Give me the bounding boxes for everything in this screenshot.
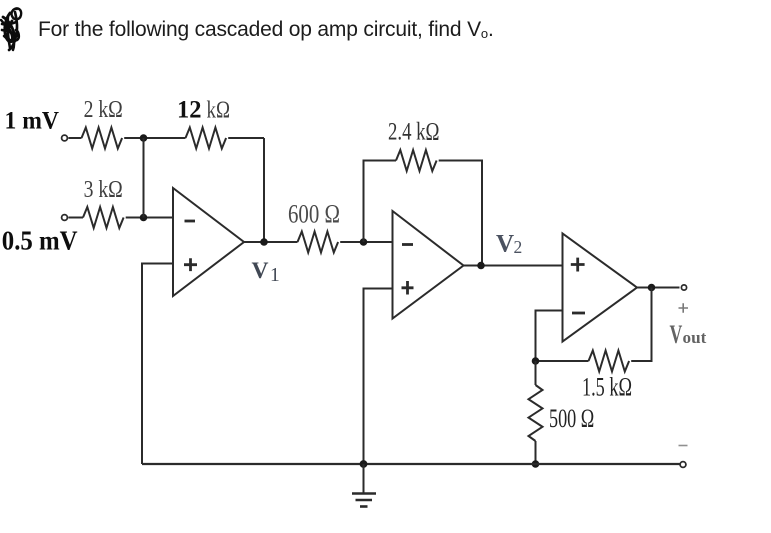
svg-text:V: V — [496, 231, 514, 258]
svg-text:0.5 mV: 0.5 mV — [2, 226, 78, 256]
resistor R 600 — [298, 232, 339, 253]
svg-text:3 kΩ: 3 kΩ — [84, 177, 123, 203]
wire R 2.4k down to op2 output — [439, 161, 482, 266]
node B junction dot — [140, 214, 148, 222]
svg-text:2: 2 — [514, 237, 523, 257]
op-amp U3 — [563, 234, 638, 342]
svg-text:1 mV: 1 mV — [5, 105, 60, 134]
wire R 12k to corner — [228, 137, 264, 139]
resistor R 2.4k — [396, 150, 437, 171]
op-amp U2 — [393, 211, 464, 319]
svg-text:2 kΩ: 2 kΩ — [84, 97, 123, 123]
svg-text:V: V — [670, 320, 683, 349]
node E junction dot — [532, 357, 540, 365]
wire R 1.5k to node E — [536, 360, 589, 362]
wire terminal to R 2k — [68, 137, 81, 139]
svg-text:1.5 kΩ: 1.5 kΩ — [582, 373, 632, 402]
svg-text:600 Ω: 600 Ω — [288, 199, 340, 228]
node V1 junction dot — [260, 238, 268, 246]
wire op1 noninverting input — [142, 264, 173, 465]
wire R 3k to op1 inverting input — [126, 217, 173, 219]
wire node E to R 500 — [535, 361, 537, 385]
resistor R 3k — [83, 207, 124, 228]
wire op3 inverting input — [536, 311, 563, 362]
scribble mark — [1, 8, 21, 50]
resistor R 1.5k — [589, 351, 630, 372]
wire feedback loop up from node C — [364, 161, 397, 243]
plus sign Vout — [679, 303, 689, 312]
terminal 0.5mV input — [62, 215, 68, 221]
wire op3 output — [637, 287, 680, 289]
svg-text:2.4 kΩ: 2.4 kΩ — [388, 119, 440, 146]
node G junction dot — [360, 460, 368, 468]
svg-text:12: 12 — [177, 97, 202, 124]
resistor R 12k — [186, 128, 227, 149]
svg-text:V: V — [252, 258, 269, 284]
wire R 600 to op2 inverting input — [340, 241, 392, 243]
node C junction dot — [360, 238, 368, 246]
wire R 2k to node A — [124, 137, 185, 139]
resistor R 2k — [82, 128, 123, 149]
op-amp U1 — [173, 188, 244, 296]
wire node A to node B — [143, 138, 145, 218]
wire terminal to R 3k — [68, 217, 83, 219]
wire op1 output — [244, 241, 298, 243]
ground — [352, 464, 376, 507]
title — [38, 18, 494, 42]
terminal Vout minus — [680, 462, 686, 468]
svg-text:1: 1 — [270, 265, 280, 286]
minus sign Vout — [679, 445, 688, 447]
terminal Vout plus — [681, 285, 686, 290]
wire ground rail — [142, 463, 680, 465]
node F junction dot — [532, 460, 540, 468]
terminal 1mV input — [62, 135, 68, 141]
node V2 junction dot — [477, 262, 485, 270]
wire R 500 to ground rail — [535, 441, 537, 464]
svg-text:500 Ω: 500 Ω — [549, 404, 594, 433]
resistor R 500 — [529, 385, 543, 441]
node A junction dot — [140, 134, 148, 142]
wire feedback op3 output down — [631, 288, 651, 362]
wire feedback down to op1 output — [263, 138, 265, 242]
wire op2 noninverting input — [364, 289, 393, 465]
svg-text:out: out — [683, 328, 707, 347]
node D junction dot — [648, 284, 656, 292]
svg-text:kΩ: kΩ — [207, 98, 231, 124]
wire op2 output to op3 — [464, 265, 563, 267]
